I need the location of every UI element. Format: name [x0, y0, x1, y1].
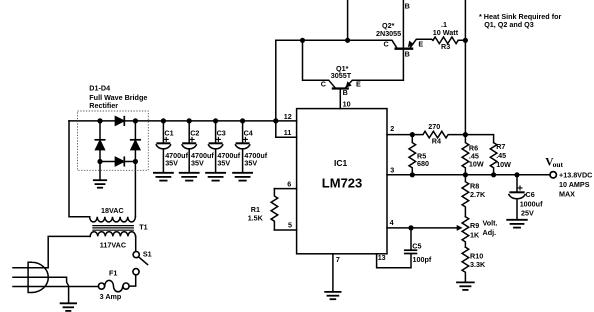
transistor Q2 emitter with arrow — [408, 39, 433, 47]
wire pin 11 stub — [276, 121, 297, 137]
svg-text:10W: 10W — [496, 160, 511, 169]
node bridge +V rail — [69, 120, 297, 122]
diode D4 bottom — [115, 157, 124, 165]
svg-text:R7: R7 — [496, 142, 505, 151]
AC plug neutral prong wire to fuse — [13, 286, 98, 288]
svg-text:Rectifier: Rectifier — [89, 101, 118, 110]
svg-text:B: B — [405, 2, 410, 11]
svg-text:3 Amp: 3 Amp — [100, 292, 122, 301]
wire riser rail to top — [275, 40, 277, 121]
svg-text:35V: 35V — [217, 159, 230, 168]
label R1 — [248, 205, 264, 223]
wire bridge left vertical — [99, 121, 101, 162]
wire pin 4 to wiper — [387, 227, 460, 229]
wire pin 2 stub — [387, 134, 412, 136]
wire bridge right vertical — [134, 121, 136, 162]
wire pin 5 stub — [274, 229, 296, 231]
wire pin 7 to ground — [332, 254, 334, 291]
junction C1 — [161, 118, 166, 123]
label C5 — [412, 241, 432, 263]
junction pin2 R5 tap — [410, 132, 415, 137]
wire Q1 collector — [303, 40, 335, 87]
resistor R6 zigzag — [462, 135, 469, 175]
ground R10 — [457, 282, 474, 290]
label R9 — [470, 221, 480, 240]
capacitor C2 — [180, 121, 199, 181]
svg-text:Volt.: Volt. — [483, 219, 498, 228]
svg-text:B: B — [405, 50, 410, 59]
svg-text:2.7K: 2.7K — [470, 190, 486, 199]
junction rail riser — [273, 118, 278, 123]
svg-text:10W: 10W — [469, 160, 484, 169]
svg-text:10 Watt: 10 Watt — [433, 28, 459, 37]
svg-text:+13.8VDC: +13.8VDC — [559, 171, 592, 180]
svg-text:E: E — [418, 40, 423, 49]
svg-text:C4: C4 — [244, 129, 253, 138]
switch S1 — [133, 252, 148, 275]
note heat sink — [479, 12, 561, 29]
terminal Vout — [550, 172, 556, 178]
wire bridge bottom row — [100, 161, 135, 163]
resistor R8 zigzag — [462, 175, 469, 217]
ground bridge negative — [94, 162, 106, 188]
junction R3 output tap — [463, 38, 468, 43]
resistor R3 zigzag — [433, 37, 465, 44]
svg-text:11: 11 — [284, 128, 292, 137]
resistor R1 zigzag — [271, 189, 278, 230]
label R4 — [428, 122, 441, 146]
label R7 — [496, 142, 511, 169]
resistor R4 zigzag — [412, 131, 465, 138]
svg-text:35V: 35V — [191, 159, 204, 168]
svg-text:2N3055: 2N3055 — [376, 29, 401, 38]
svg-text:E: E — [356, 80, 361, 89]
label R3 value — [433, 20, 459, 51]
wire Q3 collector to top edge — [347, 0, 349, 40]
wire Q2 base line to top edge — [402, 0, 404, 80]
resistor R10 zigzag — [462, 247, 469, 282]
label Volt Adj — [483, 219, 498, 237]
ground plug earth — [61, 303, 77, 311]
svg-text:35V: 35V — [244, 159, 257, 168]
wire emitter rail to top edge — [464, 0, 466, 40]
svg-text:4: 4 — [390, 218, 394, 227]
arrow R9 wiper — [457, 225, 463, 231]
transistor Q1 base bar — [333, 87, 348, 89]
junction Q1 collector tap — [300, 38, 305, 43]
svg-text:C2: C2 — [190, 129, 199, 138]
svg-text:6: 6 — [287, 180, 291, 189]
label C1 — [164, 129, 188, 168]
transformer T1 primary winding 117VAC — [90, 232, 136, 237]
svg-text:C: C — [384, 40, 389, 49]
label R6 — [469, 144, 484, 169]
transformer T1 secondary winding 18VAC — [90, 217, 136, 222]
svg-text:12: 12 — [284, 112, 292, 121]
svg-text:C3: C3 — [217, 129, 226, 138]
svg-text:7: 7 — [336, 255, 340, 264]
label C3 — [217, 129, 241, 168]
junction C4 — [240, 118, 245, 123]
svg-text:100pf: 100pf — [413, 255, 432, 264]
transistor Q2 base bar — [396, 48, 413, 50]
AC plug P1 body — [28, 262, 48, 292]
junction R6 bottom — [463, 172, 468, 177]
svg-text:out: out — [553, 160, 564, 169]
junction C5 top tap — [408, 225, 413, 230]
label R5 — [417, 152, 429, 168]
capacitor C3 — [206, 121, 225, 181]
svg-text:B: B — [343, 88, 348, 97]
capacitor C4 — [233, 121, 252, 181]
wire pin 6 stub — [274, 188, 296, 190]
ground C6 — [507, 220, 527, 228]
dashed box bridge rectifier — [78, 111, 149, 170]
junction bridge gnd — [97, 159, 102, 164]
ground IC pin 7 — [325, 292, 340, 299]
wire pin 3 output rail — [387, 174, 550, 176]
junction C6 tap — [514, 172, 519, 177]
label C6 — [520, 190, 543, 217]
svg-text:10 AMPS: 10 AMPS — [559, 180, 590, 189]
svg-text:18VAC: 18VAC — [101, 206, 124, 215]
wire secondary right to bridge AC2 — [134, 162, 136, 217]
wire emitter rail down to R4 node — [464, 40, 466, 134]
capacitor C5 — [405, 228, 417, 254]
label D1-D4 rectifier note — [89, 84, 147, 111]
svg-text:10: 10 — [343, 100, 351, 109]
capacitor C6 — [509, 175, 525, 219]
capacitor C1 — [154, 121, 173, 181]
diode D3 right — [131, 140, 140, 150]
wire secondary left to bridge AC1 — [69, 121, 90, 217]
svg-text:270: 270 — [428, 122, 440, 131]
AC plug ground prong wire — [13, 277, 69, 302]
label C2 — [190, 129, 214, 168]
svg-text:13: 13 — [378, 253, 386, 262]
junction bridge AC2 — [133, 159, 138, 164]
label R10 — [470, 251, 486, 269]
svg-text:5: 5 — [288, 221, 292, 230]
svg-text:MAX: MAX — [559, 189, 575, 198]
svg-text:F1: F1 — [109, 268, 117, 277]
wire switch to transformer primary — [135, 236, 137, 251]
diode D1 top — [115, 117, 124, 125]
svg-text:LM723: LM723 — [322, 175, 362, 190]
svg-text:3055T: 3055T — [331, 71, 352, 80]
svg-text:R1: R1 — [251, 205, 260, 214]
junction C3 — [213, 118, 218, 123]
svg-text:2: 2 — [390, 124, 394, 133]
diode D2 left — [95, 140, 104, 150]
junction Q3 collector tap — [345, 38, 350, 43]
wire Q1 base to pin 10 — [339, 90, 341, 109]
wire fuse to switch — [129, 275, 136, 286]
wire pin 13 loop — [377, 254, 411, 268]
svg-text:3.3K: 3.3K — [470, 260, 486, 269]
label C4 — [244, 129, 268, 168]
label Q2 — [376, 21, 401, 38]
junction R5 bottom — [410, 172, 415, 177]
resistor R7 zigzag — [490, 143, 497, 175]
label output spec — [559, 171, 592, 199]
junction bridge +V — [133, 118, 138, 123]
junction R4 right node — [463, 132, 468, 137]
junction bridge AC1 — [97, 118, 102, 123]
svg-text:D1-D4: D1-D4 — [89, 84, 110, 93]
svg-text:S1: S1 — [143, 250, 152, 259]
label Vout — [545, 157, 563, 170]
svg-text:C5: C5 — [412, 241, 421, 250]
wire top rail to Q2 collector — [276, 40, 397, 47]
svg-text:25V: 25V — [521, 209, 534, 218]
fuse F1 — [98, 280, 129, 291]
svg-text:.45: .45 — [496, 151, 506, 160]
resistor R5 zigzag — [409, 135, 416, 175]
junction R7 bottom — [491, 172, 496, 177]
svg-text:C1: C1 — [164, 129, 173, 138]
transistor Q1 emitter with arrow — [345, 80, 403, 88]
resistor R9 potentiometer zigzag — [462, 217, 469, 247]
label R8 — [470, 182, 486, 199]
svg-text:C6: C6 — [526, 190, 535, 199]
svg-text:Adj.: Adj. — [483, 228, 497, 237]
svg-text:Q1, Q2 and Q3: Q1, Q2 and Q3 — [484, 20, 534, 29]
svg-text:R4: R4 — [432, 137, 441, 146]
wire R7 top — [465, 135, 493, 143]
label Q1 — [331, 64, 352, 80]
svg-text:C: C — [321, 80, 326, 89]
svg-text:R9: R9 — [470, 221, 479, 230]
svg-text:3: 3 — [390, 166, 394, 175]
svg-text:117VAC: 117VAC — [100, 241, 126, 250]
svg-text:1K: 1K — [470, 231, 480, 240]
svg-text:T1: T1 — [139, 222, 147, 231]
op-amp IC1 LM723 box — [297, 109, 387, 254]
svg-text:1.5K: 1.5K — [248, 214, 264, 223]
junction C2 — [187, 118, 192, 123]
svg-text:1000uf: 1000uf — [520, 200, 543, 209]
svg-text:680: 680 — [417, 159, 429, 168]
svg-text:35V: 35V — [165, 159, 178, 168]
transformer T1 core — [93, 226, 133, 231]
svg-text:R3: R3 — [441, 42, 450, 51]
AC plug hot prong wire to transformer — [13, 236, 90, 267]
svg-text:R10: R10 — [470, 251, 483, 260]
svg-text:IC1: IC1 — [334, 158, 348, 168]
